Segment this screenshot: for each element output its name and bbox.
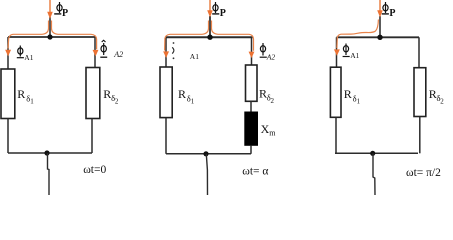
svg-text:A1: A1 bbox=[350, 51, 359, 60]
svg-text:P: P bbox=[220, 8, 226, 19]
wire bottom horizontal C1 bbox=[8, 152, 92, 154]
flux arrow phiA2 head C2 bbox=[249, 52, 255, 59]
flux arrow phiP head C3 bbox=[377, 10, 383, 17]
flux arrow phiP head C1 bbox=[47, 12, 53, 19]
label phiP C2 bbox=[212, 2, 226, 19]
svg-text:A1: A1 bbox=[24, 53, 33, 62]
label Rd2 C3 bbox=[429, 87, 445, 105]
resistor Rd1 C2 bbox=[160, 67, 172, 118]
svg-text:A2: A2 bbox=[266, 52, 276, 61]
svg-text:P: P bbox=[62, 8, 68, 19]
label Rd1 C3 bbox=[344, 87, 361, 105]
resistor Rd2 C2 bbox=[246, 65, 258, 101]
svg-text:1: 1 bbox=[191, 97, 195, 105]
wire right vertical C3 bbox=[418, 37, 420, 67]
label phiA1 C1 bbox=[17, 46, 34, 62]
flux arrow phiP shaft C3 bbox=[379, 0, 381, 11]
label phiP C1 bbox=[54, 2, 68, 19]
resistor Rd1 C3 bbox=[330, 67, 341, 117]
wire top horizontal C1 bbox=[8, 36, 95, 38]
wire left vertical C3 bbox=[336, 37, 338, 67]
reactance Xm C2 bbox=[245, 112, 258, 145]
wire center vertical dark C3 bbox=[379, 16, 381, 37]
svg-text:2: 2 bbox=[271, 97, 275, 105]
flux arrow phiA1 head C3 bbox=[334, 49, 340, 56]
svg-text:1: 1 bbox=[30, 97, 34, 105]
flux arrow phiA1 head C2 bbox=[163, 51, 169, 58]
svg-text:R: R bbox=[17, 87, 25, 101]
label phiA1 C3 bbox=[343, 44, 360, 61]
svg-text:ωt=0: ωt=0 bbox=[83, 164, 106, 176]
node top junction C3 bbox=[377, 35, 382, 40]
svg-text:R: R bbox=[344, 87, 352, 101]
label Rd1 C1 bbox=[17, 87, 34, 105]
label wt=a C2 bbox=[242, 166, 268, 178]
wire top horizontal C3 bbox=[337, 36, 420, 38]
resistor Rd1 C1 bbox=[1, 69, 15, 119]
label Rd2 C2 bbox=[259, 87, 275, 105]
svg-text:2: 2 bbox=[440, 97, 444, 105]
node bottom junction C2 bbox=[203, 151, 208, 156]
resistor Rd2 C3 bbox=[414, 68, 426, 117]
wire center vertical dark C2 bbox=[209, 16, 211, 37]
svg-text:R: R bbox=[429, 87, 437, 101]
flux arrow phiA1 head C1 bbox=[5, 50, 11, 57]
flux stream right C1 bbox=[52, 21, 97, 50]
wire left vertical C2 bbox=[165, 37, 167, 67]
label Xm C2 bbox=[261, 122, 277, 137]
svg-text:A2: A2 bbox=[113, 50, 123, 59]
wire below Rd1 C2 bbox=[165, 118, 167, 154]
svg-text:ωt= α: ωt= α bbox=[242, 166, 268, 178]
label wt=0 C1 bbox=[83, 164, 106, 176]
node bottom junction C3 bbox=[370, 151, 375, 156]
label phiP C3 bbox=[382, 2, 396, 19]
flux stream left C1 bbox=[8, 21, 49, 49]
wire below Rd1 C3 bbox=[335, 117, 337, 153]
flux arrow phiP shaft C1 bbox=[49, 0, 51, 12]
label phiA2 C2 bbox=[260, 43, 276, 61]
label Rd2 C1 bbox=[103, 87, 119, 105]
wire bottom horizontal C3 bbox=[335, 152, 418, 154]
flux arrow phiA2 head C1 bbox=[93, 50, 99, 57]
label wt=pi/2 C3 bbox=[406, 167, 441, 179]
node top junction C2 bbox=[207, 35, 212, 40]
svg-text:A1: A1 bbox=[190, 52, 199, 61]
svg-text:1: 1 bbox=[357, 97, 361, 105]
wire bottom stub C2 bbox=[206, 154, 207, 195]
svg-text:m: m bbox=[269, 128, 276, 137]
node top junction C1 bbox=[47, 34, 52, 39]
wire below Xm C2 bbox=[250, 145, 252, 154]
label Rd1 C2 bbox=[178, 87, 195, 105]
resistor Rd2 C1 bbox=[86, 68, 100, 119]
wire between Rd2 and Xm C2 bbox=[250, 101, 252, 112]
flux arrow phiP head C2 bbox=[207, 10, 213, 17]
svg-text:P: P bbox=[389, 8, 395, 19]
flux stream left C3 bbox=[337, 20, 379, 49]
label phiA1 dotted C2 bbox=[172, 42, 199, 61]
wire right vertical C2 bbox=[251, 37, 253, 65]
node bottom junction C1 bbox=[44, 150, 49, 155]
wire bottom stub C1 bbox=[48, 153, 50, 195]
svg-text:X: X bbox=[261, 122, 270, 136]
wire top horizontal C2 bbox=[166, 36, 253, 38]
svg-text:ωt= π/2: ωt= π/2 bbox=[406, 167, 441, 179]
wire right vertical C1 bbox=[94, 37, 96, 68]
svg-text:2: 2 bbox=[115, 97, 119, 105]
svg-text:R: R bbox=[178, 87, 186, 101]
label phiA2hat C1 bbox=[100, 40, 123, 59]
wire below Rd1 C1 bbox=[7, 119, 9, 154]
wire bottom stub C3 bbox=[373, 153, 375, 195]
wire below Rd2 C1 bbox=[91, 119, 93, 154]
wire center vertical dark C1 bbox=[49, 17, 51, 37]
wire bottom horizontal C2 bbox=[166, 153, 251, 155]
flux arrow phiP shaft C2 bbox=[209, 0, 211, 11]
wire below Rd2 C3 bbox=[419, 117, 421, 154]
wire left vertical C1 bbox=[7, 37, 9, 69]
flux stream right C2 bbox=[212, 21, 254, 51]
flux stream left C2 bbox=[165, 21, 209, 51]
